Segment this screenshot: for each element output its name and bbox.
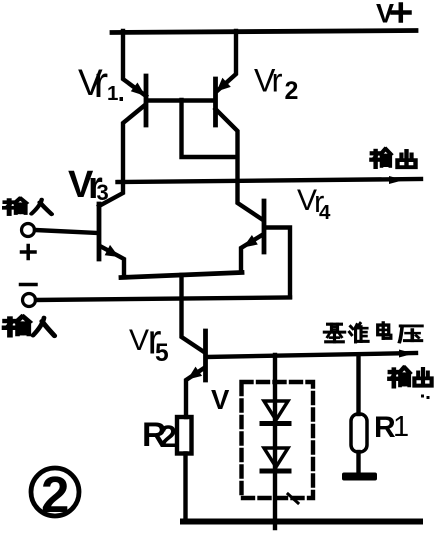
svg-text:r: r xyxy=(94,58,109,107)
svg-text:4: 4 xyxy=(319,201,331,224)
svg-text:1: 1 xyxy=(393,411,409,443)
svg-text:V: V xyxy=(129,324,149,357)
svg-text:2: 2 xyxy=(160,418,178,454)
svg-text:2: 2 xyxy=(285,77,299,105)
svg-text:V: V xyxy=(211,384,230,415)
svg-text:5: 5 xyxy=(155,340,169,367)
svg-text:r: r xyxy=(272,62,283,99)
svg-text:3: 3 xyxy=(97,180,109,205)
svg-text:2: 2 xyxy=(41,466,69,523)
svg-text:1: 1 xyxy=(107,82,118,105)
